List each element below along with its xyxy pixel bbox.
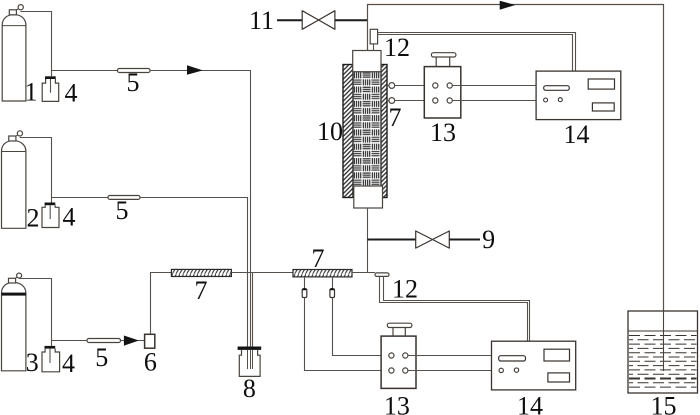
flow arrow on top run <box>500 1 516 10</box>
gas cylinder 3 <box>2 273 26 371</box>
gas cylinder 1 <box>2 5 26 101</box>
svg-text:1: 1 <box>25 78 38 107</box>
reactor bottom cap <box>354 186 383 208</box>
reactor outlet pipe down to junction <box>367 208 369 273</box>
svg-text:15: 15 <box>651 392 677 415</box>
pipe from heated line 7b to reactor outlet junction <box>352 272 375 274</box>
pipe from valve 11 into reactor top line <box>277 19 302 21</box>
svg-text:11: 11 <box>249 6 274 35</box>
thermocouple 12b twin leads to recorder 14b <box>380 276 530 341</box>
pipe from valve 11 to riser <box>335 19 368 21</box>
svg-text:7: 7 <box>195 276 208 305</box>
svg-text:4: 4 <box>65 79 78 108</box>
flow element 5c <box>87 339 121 343</box>
svg-text:3: 3 <box>26 348 39 377</box>
thermocouple 12a on reactor head <box>370 29 377 50</box>
bubbler bottle 4b <box>42 203 59 228</box>
pipe from bubbler 4a to flow element 5a <box>52 70 118 72</box>
thermocouple 12a twin leads to controller 14a <box>378 33 576 72</box>
condenser tank 15 <box>628 311 698 393</box>
pipe from mixer 6 up to heated line 7a <box>151 273 172 335</box>
svg-text:12: 12 <box>384 33 410 62</box>
bubbler bottle 4a <box>42 76 59 101</box>
bubbler bottle 4c <box>42 346 60 372</box>
svg-text:13: 13 <box>430 118 456 147</box>
heated line 7b (right hatched bar) <box>293 270 352 277</box>
controller box 13b <box>381 323 416 388</box>
pipe from bubbler 4b to flow element 5b <box>52 197 109 199</box>
svg-text:5: 5 <box>127 68 140 97</box>
svg-text:9: 9 <box>482 225 495 254</box>
svg-text:14: 14 <box>564 120 590 149</box>
svg-text:7: 7 <box>312 244 325 273</box>
recorder box 14a <box>536 71 621 120</box>
mixer box 6 <box>145 334 155 348</box>
valve 11 (bowtie) <box>302 11 335 30</box>
pipe from flow element 5c to mixer 6 <box>121 340 146 342</box>
pipe from cylinder 1 valve down to bubbler 4a <box>21 12 52 77</box>
pipe from heated line 7a across to heated line 7b <box>231 272 293 274</box>
main product line: riser, top run, down to condenser 15 <box>368 5 664 312</box>
svg-text:6: 6 <box>144 348 157 377</box>
sampling port line B under heated line 7b <box>330 277 389 356</box>
pipe from bubbler 4c to flow element 5c <box>52 340 88 342</box>
svg-text:5: 5 <box>95 343 108 372</box>
svg-text:5: 5 <box>116 196 129 225</box>
svg-text:7: 7 <box>389 103 402 132</box>
controller box 13a <box>424 53 461 118</box>
flow element 5b <box>108 196 140 200</box>
heated line 7a (left hatched bar) <box>171 269 231 276</box>
third carrier line down to saturator 8 <box>252 273 254 347</box>
flow arrow on line 1 <box>187 65 203 74</box>
wires reactor ports to controller 13a <box>395 86 433 101</box>
sampling port line A under heated line 7b <box>302 277 388 371</box>
pipe from cylinder 2 valve down to bubbler 4b <box>20 138 52 203</box>
reactor head <box>353 51 381 72</box>
valve 9 (bowtie) <box>416 231 450 248</box>
svg-text:2: 2 <box>27 204 40 233</box>
thermocouple 12b tee cap <box>375 273 389 277</box>
reactor packed bed 10 <box>353 72 381 186</box>
reactor furnace right wall (hatched) <box>381 65 387 198</box>
flow arrow on line 3 <box>124 336 139 346</box>
wires controller 13b to recorder 14b <box>408 356 492 371</box>
svg-text:8: 8 <box>243 374 256 403</box>
branch pipe to valve 9 <box>368 239 416 241</box>
gas cylinder 2 <box>2 131 26 229</box>
svg-text:13: 13 <box>384 392 410 415</box>
wires controller 13a to recorder 14a <box>452 86 536 101</box>
svg-text:4: 4 <box>62 349 75 378</box>
saturator bottle 8 <box>238 347 262 377</box>
pipe from cylinder 3 valve down to bubbler 4c <box>19 279 52 346</box>
pipe stub after valve 9 <box>449 239 480 241</box>
svg-text:14: 14 <box>517 392 543 415</box>
svg-text:10: 10 <box>317 117 343 146</box>
dip tube into condenser 15 <box>663 311 665 371</box>
flow element 5a <box>118 69 151 73</box>
svg-text:12: 12 <box>392 274 418 303</box>
pipe from flow element 5a with arrow to down-corner <box>150 71 251 347</box>
reactor wall sensor ports (two circles) <box>387 83 395 104</box>
recorder box 14b <box>492 341 576 390</box>
reactor furnace left wall (hatched) <box>343 65 353 198</box>
pipe from flow element 5b to down-corner <box>140 198 248 347</box>
svg-text:4: 4 <box>63 203 76 232</box>
